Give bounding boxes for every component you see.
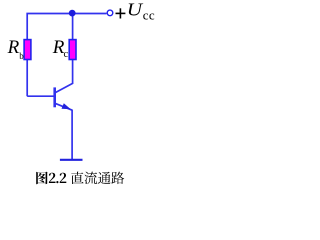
svg-text:cc: cc	[143, 7, 155, 22]
svg-text:R: R	[7, 37, 20, 58]
svg-text:U: U	[127, 0, 144, 20]
svg-text:c: c	[64, 49, 69, 60]
svg-text:b: b	[19, 51, 24, 61]
